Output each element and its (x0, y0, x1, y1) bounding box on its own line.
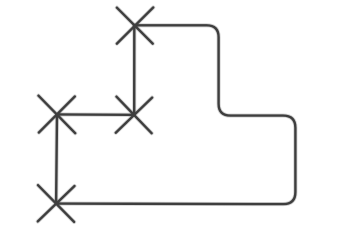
wire B to D vertical (55, 114, 58, 203)
wire B-C halo (57, 112, 134, 117)
node A cross halo (117, 8, 153, 44)
node D cross (38, 185, 75, 222)
wire A-C halo (132, 25, 136, 115)
wire B-D halo (54, 114, 59, 203)
wire outer loop from node A right, down, right, down, left to node D (rounded corners) (56, 25, 295, 204)
node A cross (117, 8, 153, 44)
node D cross halo (38, 185, 75, 222)
node B cross (39, 96, 76, 134)
node C cross (116, 97, 152, 134)
node B cross halo (39, 96, 76, 134)
wire A to C vertical (133, 25, 136, 115)
node C cross halo (116, 97, 152, 134)
wire outer loop halo (56, 25, 295, 204)
wire B to C horizontal (57, 113, 134, 116)
